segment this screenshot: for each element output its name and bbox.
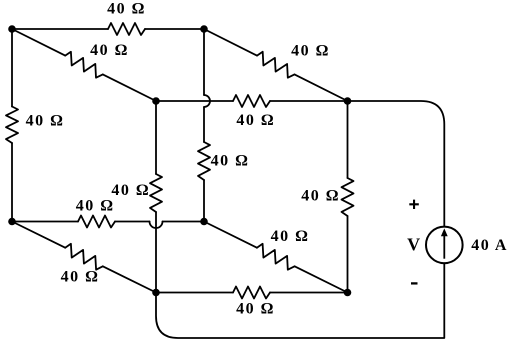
resistor R5 40ohm (inner top edge) (233, 95, 270, 107)
resistor R10 40ohm (B-F diagonal) (257, 52, 295, 78)
svg-text:40 Ω: 40 Ω (236, 301, 275, 318)
resistor R6 40ohm (inner left edge) (150, 174, 162, 212)
wire D-H diagonal start (12, 222, 65, 248)
resistor R3 40ohm (right outer edge) (198, 142, 210, 180)
wire F to R7 (347, 101, 349, 178)
current source I1 circle (426, 227, 463, 264)
wire A-E diagonal start (12, 29, 65, 56)
resistor R4 40ohm (bottom outer edge) (78, 216, 115, 228)
node H (152, 289, 160, 297)
node A (8, 25, 16, 33)
wire hop to R3 (203, 107, 205, 142)
wire R4 to dip (115, 221, 150, 223)
wire R5 to F (270, 100, 348, 102)
svg-text:40 Ω: 40 Ω (76, 198, 115, 215)
wire R6 to H (155, 212, 157, 293)
svg-text:40 Ω: 40 Ω (90, 42, 129, 59)
node D (8, 218, 16, 226)
svg-text:40 Ω: 40 Ω (211, 153, 250, 170)
svg-text:40 Ω: 40 Ω (291, 43, 330, 60)
node F (344, 97, 352, 105)
svg-text:40 Ω: 40 Ω (301, 187, 340, 204)
crossover dip on D-C wire (150, 222, 163, 229)
wire R3 to C (203, 180, 205, 222)
wire A to R2 (11, 29, 13, 107)
node E (152, 97, 160, 105)
wire C-G diagonal start (204, 222, 257, 248)
svg-text:40 Ω: 40 Ω (271, 228, 310, 245)
svg-text:40 Ω: 40 Ω (236, 112, 275, 129)
resistor R1 40ohm (top outer edge) (108, 23, 145, 35)
wire A to R1 (12, 28, 108, 30)
node B (200, 25, 208, 33)
crossover hop on B-C wire (204, 95, 210, 107)
wire E to R5 (156, 100, 233, 102)
current source arrow (443, 235, 445, 259)
resistor R8 40ohm (inner bottom edge) (233, 287, 270, 299)
resistor R11 40ohm (D-H diagonal) (65, 244, 103, 270)
svg-text:40 Ω: 40 Ω (111, 182, 150, 199)
wire F to source top (348, 101, 445, 227)
wire D-H diagonal end (103, 266, 156, 292)
wire B-F diagonal end (295, 74, 348, 101)
svg-text:40 A: 40 A (471, 237, 508, 254)
node C (200, 218, 208, 226)
label minus terminal (411, 282, 418, 284)
wire D to R4 (12, 221, 78, 223)
wire source bottom to H (156, 263, 444, 338)
wire R8 to G (270, 292, 348, 294)
label plus terminal (409, 200, 419, 209)
svg-text:40 Ω: 40 Ω (107, 1, 146, 18)
svg-text:V: V (407, 235, 422, 255)
svg-text:40 Ω: 40 Ω (26, 113, 65, 130)
wire R7 to G (347, 216, 349, 293)
wire C-G diagonal end (295, 266, 348, 292)
wire A-E diagonal end (103, 74, 156, 101)
wire dip to C (163, 221, 205, 223)
wire R2 to D (11, 143, 13, 222)
node G (344, 289, 352, 297)
wire B-F diagonal start (204, 29, 257, 56)
resistor R7 40ohm (inner right edge) (342, 178, 354, 216)
wire R1 to B (145, 28, 204, 30)
resistor R2 40ohm (left outer edge) (6, 107, 18, 144)
wire E to R6 (155, 101, 157, 174)
resistor R9 40ohm (A-E diagonal) (65, 52, 103, 78)
svg-text:40 Ω: 40 Ω (61, 269, 100, 286)
wire B to hop (203, 29, 205, 95)
resistor R12 40ohm (C-G diagonal) (257, 244, 295, 270)
wire H to R8 (156, 292, 233, 294)
